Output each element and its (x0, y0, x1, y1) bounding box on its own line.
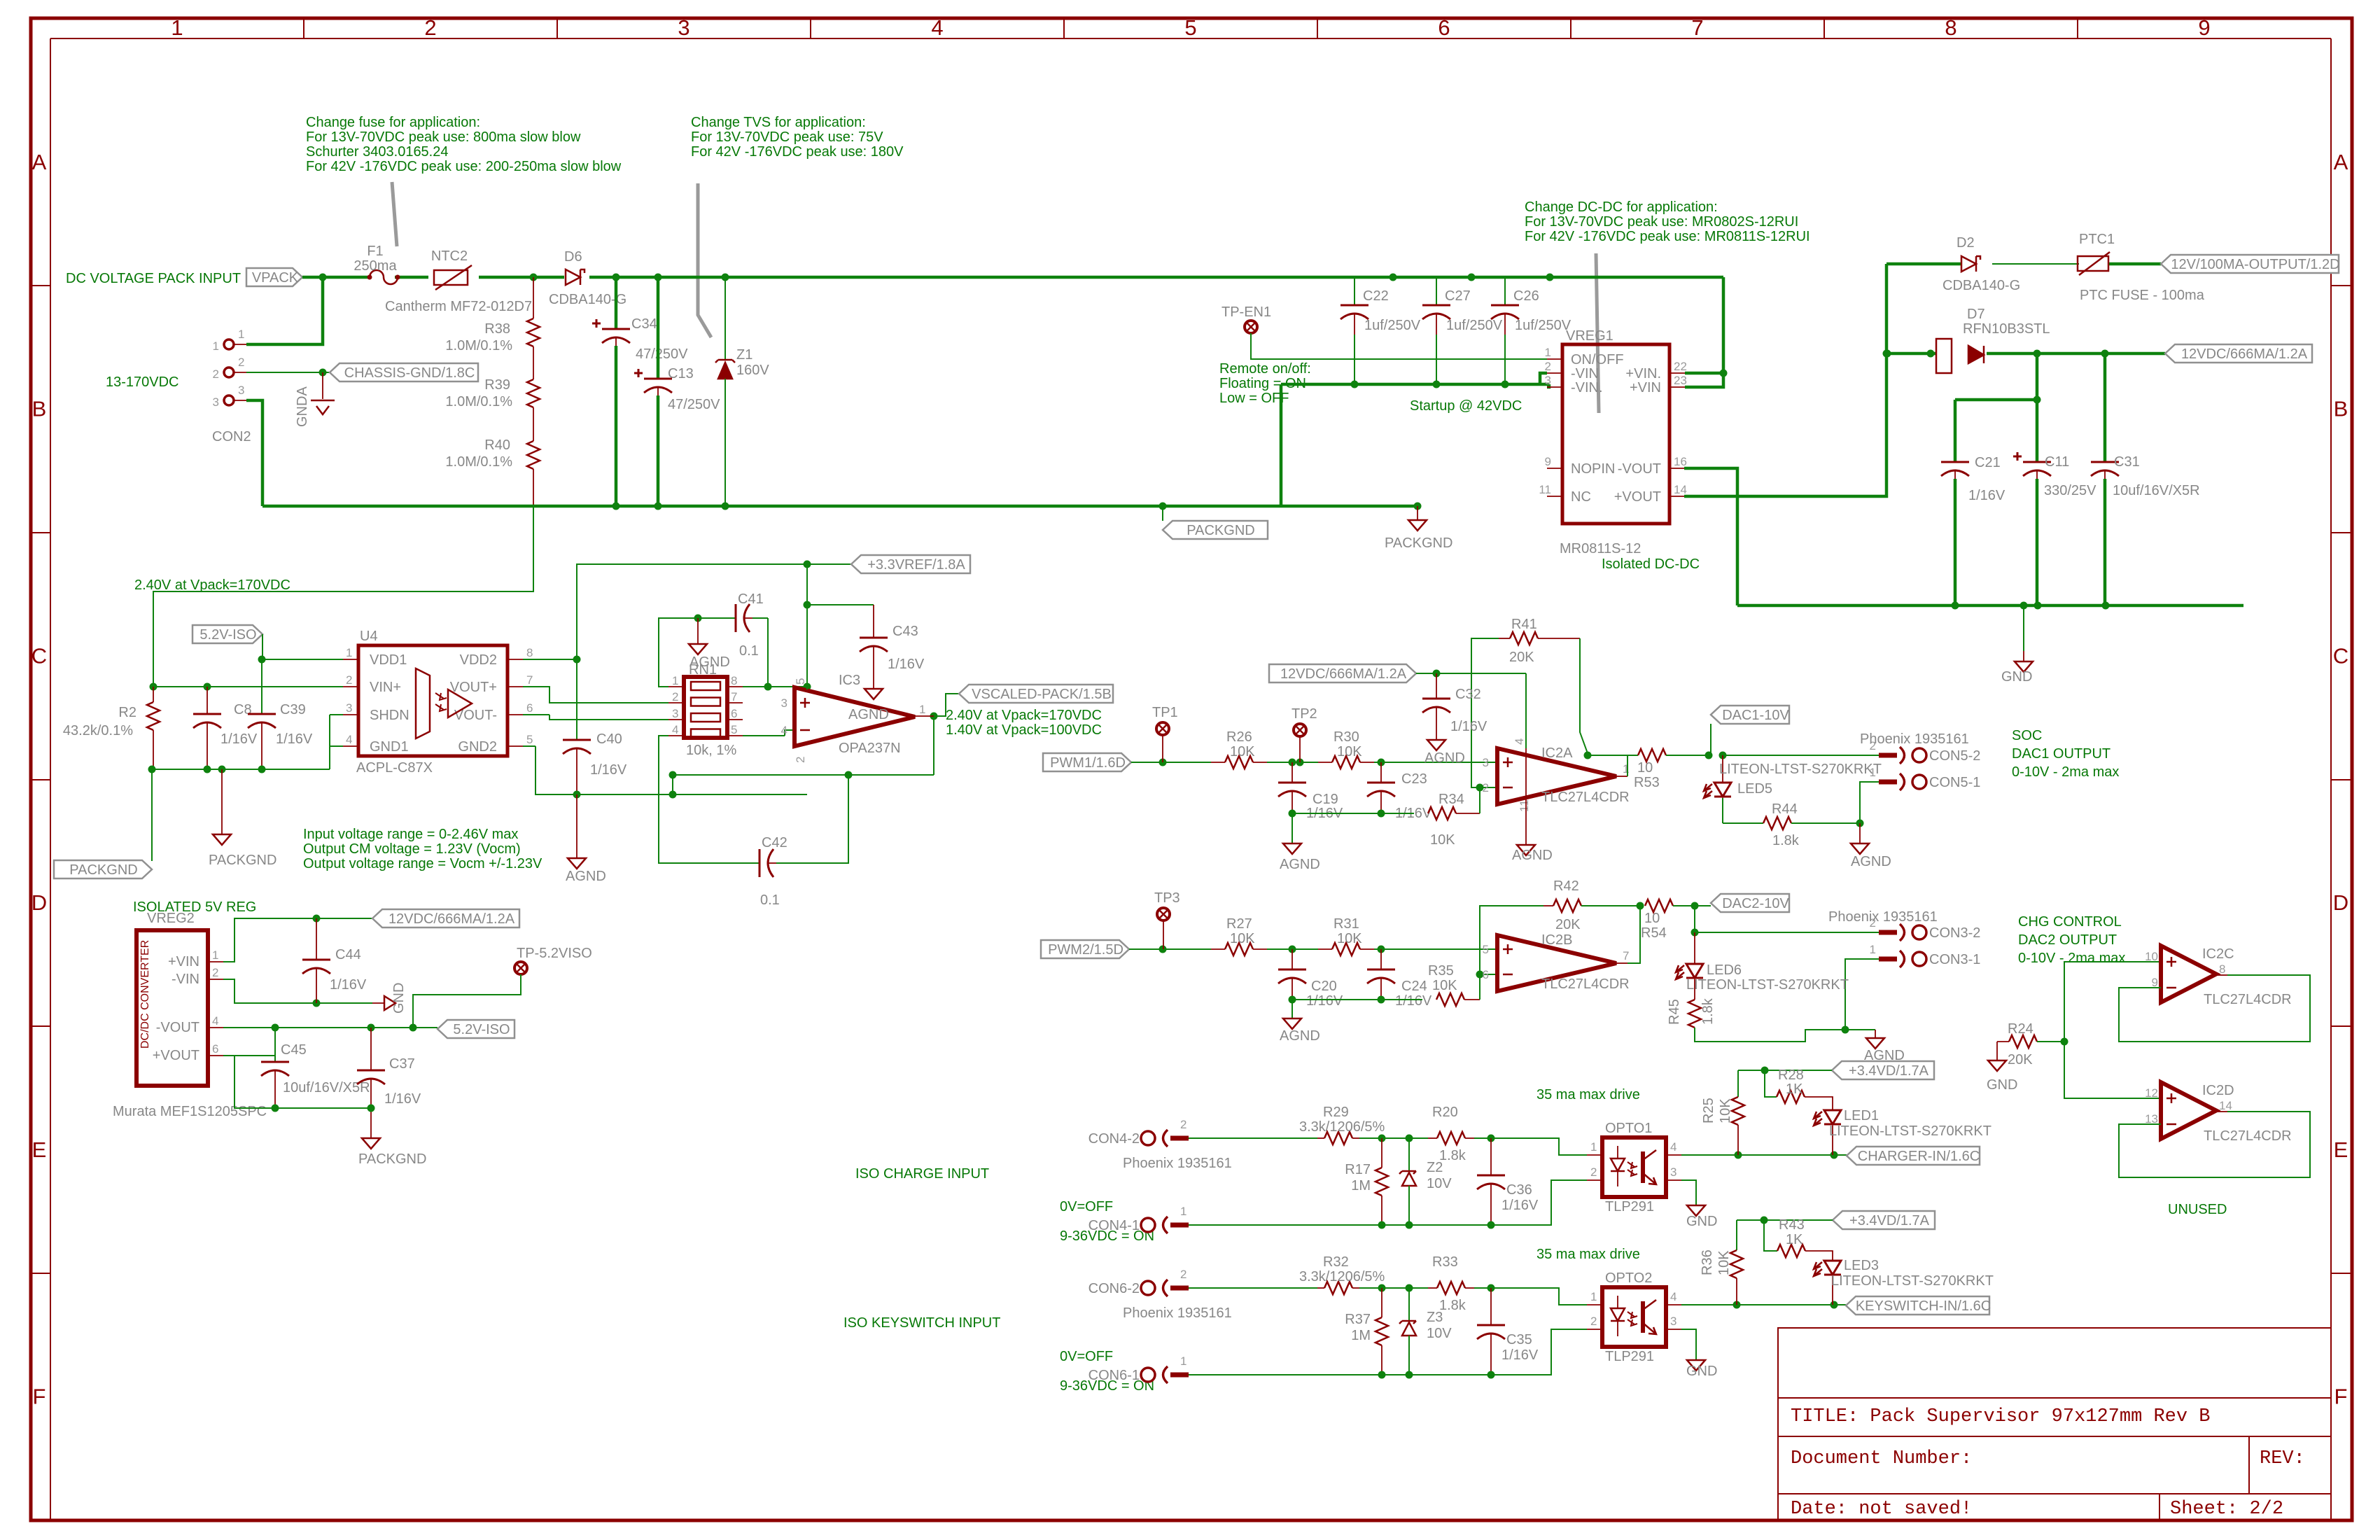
svg-text:0V=OFF: 0V=OFF (1060, 1199, 1113, 1214)
svg-text:LITEON-LTST-S270KRKT: LITEON-LTST-S270KRKT (1719, 762, 1882, 777)
svg-text:7: 7 (526, 673, 533, 687)
svg-text:1: 1 (212, 948, 218, 962)
svg-text:C41: C41 (738, 591, 764, 607)
svg-text:3: 3 (1545, 374, 1551, 387)
flag 5.2V-ISO at VREG2 (437, 1020, 514, 1038)
ground AGND below IC2A (1512, 748, 1553, 863)
DC-DC converter VREG2 (136, 930, 223, 1086)
resistor R39 (445, 346, 540, 409)
resistor R54 (1641, 899, 1699, 941)
wire C20/C24 gnd row (1289, 996, 1423, 1004)
wire 5.2V-ISO to VDD1 (258, 634, 344, 664)
fuse F1 (353, 244, 400, 284)
svg-text:C44: C44 (335, 947, 361, 962)
svg-text:7: 7 (1623, 949, 1629, 962)
svg-text:+VIN: +VIN (1630, 380, 1661, 395)
svg-text:TLP291: TLP291 (1605, 1349, 1654, 1364)
svg-text:RFN10B3STL: RFN10B3STL (1963, 321, 2050, 337)
connector CON2 pin 3 (213, 384, 246, 409)
svg-text:R38: R38 (484, 321, 510, 337)
svg-text:D7: D7 (1967, 307, 1985, 322)
wire isolated ground rail (1737, 602, 2243, 610)
capacitor C8 (193, 687, 258, 769)
svg-text:5: 5 (731, 723, 737, 736)
resistor R30 (1318, 729, 1374, 769)
svg-text:C20: C20 (1311, 979, 1337, 994)
svg-text:35 ma max drive: 35 ma max drive (1536, 1087, 1640, 1102)
svg-text:D: D (31, 890, 47, 915)
flag VPACK (246, 268, 302, 286)
svg-text:IC3: IC3 (839, 673, 860, 688)
flag KEYSWITCH-IN/1.6C (1846, 1296, 1989, 1315)
flag +3.4VD/1.7A keyswitch (1833, 1211, 1935, 1229)
svg-text:C19: C19 (1312, 792, 1338, 807)
svg-text:CHARGER-IN/1.6C: CHARGER-IN/1.6C (1858, 1149, 1980, 1164)
svg-text:1/16V: 1/16V (1501, 1198, 1539, 1213)
svg-text:ON/OFF: ON/OFF (1571, 352, 1624, 367)
svg-text:PWM2/1.5D: PWM2/1.5D (1048, 942, 1123, 958)
wire VREG2 +VOUT (223, 1028, 275, 1062)
resistor R34 (1428, 792, 1480, 848)
wire VIN+ row (150, 683, 344, 691)
svg-text:NTC2: NTC2 (431, 248, 468, 264)
svg-text:1: 1 (919, 703, 925, 716)
svg-text:For 42V -176VDC peak use: 200: For 42V -176VDC peak use: 200-250ma slow… (306, 159, 622, 174)
svg-text:1/16V: 1/16V (888, 657, 925, 672)
op-amp IC2B (1483, 935, 1630, 991)
leader line to fuse F1 (392, 182, 397, 246)
thermistor NTC2 (385, 248, 532, 314)
svg-text:R42: R42 (1553, 878, 1579, 894)
svg-text:1/16V: 1/16V (1968, 488, 2005, 503)
svg-text:Remote on/off:: Remote on/off: (1219, 361, 1311, 377)
svg-text:3.3k/1206/5%: 3.3k/1206/5% (1299, 1269, 1385, 1284)
svg-text:+VIN.: +VIN. (1625, 366, 1661, 381)
svg-text:2: 2 (1483, 781, 1489, 794)
svg-text:TP3: TP3 (1154, 890, 1180, 906)
note: charge on/off levels (1060, 1199, 1154, 1244)
svg-text:PACKGND: PACKGND (69, 862, 137, 878)
svg-text:NOPIN: NOPIN (1571, 461, 1615, 477)
flag CHASSIS-GND/1.8C (330, 363, 478, 381)
svg-text:Output CM voltage = 1.23V (Voc: Output CM voltage = 1.23V (Vocm) (303, 841, 521, 857)
svg-text:R30: R30 (1333, 729, 1359, 745)
svg-text:F: F (33, 1385, 46, 1409)
svg-text:+VOUT: +VOUT (153, 1048, 199, 1063)
svg-text:1: 1 (1590, 1140, 1597, 1154)
svg-text:PTC1: PTC1 (2079, 232, 2115, 247)
note: vscaled levels (946, 708, 1102, 738)
svg-text:LED3: LED3 (1844, 1258, 1879, 1273)
svg-text:R28: R28 (1778, 1067, 1804, 1083)
title block (1778, 1328, 2331, 1520)
svg-text:7: 7 (1691, 15, 1703, 40)
svg-text:Change fuse for application:: Change fuse for application: (306, 115, 480, 130)
svg-text:TP-5.2VISO: TP-5.2VISO (517, 946, 592, 961)
wire CON2 pin3 to PACKGND rail (246, 400, 262, 506)
svg-text:2.40V at Vpack=170VDC: 2.40V at Vpack=170VDC (134, 577, 290, 593)
svg-text:1K: 1K (1786, 1081, 1803, 1097)
svg-text:C26: C26 (1513, 288, 1539, 304)
svg-text:14: 14 (1674, 483, 1687, 496)
svg-text:1: 1 (672, 674, 678, 687)
ground PACKGND below C8 (209, 769, 276, 868)
svg-text:1uf/250V: 1uf/250V (1515, 318, 1571, 333)
svg-text:R32: R32 (1323, 1254, 1349, 1270)
ground PACKGND below C37 (358, 1138, 426, 1167)
svg-text:R53: R53 (1634, 775, 1660, 790)
connector CON3-2 (1870, 916, 1981, 941)
svg-text:CON2: CON2 (212, 429, 251, 444)
svg-text:Phoenix 1935161: Phoenix 1935161 (1860, 731, 1969, 747)
svg-text:5.2V-ISO: 5.2V-ISO (199, 627, 256, 643)
svg-text:+3.3VREF/1.8A: +3.3VREF/1.8A (867, 557, 965, 573)
svg-text:2: 2 (1590, 1315, 1597, 1328)
svg-text:4: 4 (1670, 1290, 1676, 1303)
svg-text:11: 11 (1539, 483, 1551, 496)
svg-text:GNDA: GNDA (295, 386, 310, 427)
svg-text:Murata MEF1S1205SPC: Murata MEF1S1205SPC (113, 1104, 267, 1119)
svg-text:AGND: AGND (848, 707, 889, 722)
svg-text:Change TVS for application:: Change TVS for application: (691, 115, 866, 130)
resistor R43 (1764, 1217, 1805, 1257)
wire DAC2 node (1691, 906, 1711, 937)
svg-text:C43: C43 (892, 624, 918, 639)
svg-text:1/16V: 1/16V (1306, 993, 1343, 1009)
svg-text:Isolated DC-DC: Isolated DC-DC (1602, 556, 1700, 572)
resistor R24 (1997, 1021, 2068, 1067)
svg-text:5.2V-ISO: 5.2V-ISO (453, 1022, 510, 1037)
svg-text:VOUT+: VOUT+ (450, 680, 497, 695)
svg-text:GND: GND (1686, 1364, 1717, 1379)
svg-text:2: 2 (1590, 1165, 1597, 1179)
wire D7 anode (1884, 350, 1937, 358)
svg-text:R37: R37 (1345, 1312, 1371, 1327)
capacitor C22 (1340, 277, 1421, 384)
svg-text:OPTO1: OPTO1 (1605, 1121, 1652, 1136)
resistor R26 (1211, 729, 1267, 769)
capacitor C39 (248, 659, 313, 769)
svg-text:47/250V: 47/250V (636, 346, 688, 362)
connector CON4-2 (1088, 1118, 1189, 1147)
svg-text:10K: 10K (1230, 931, 1255, 946)
svg-text:LITEON-LTST-S270KRKT: LITEON-LTST-S270KRKT (1829, 1123, 1991, 1139)
test point TP-5.2VISO (514, 946, 592, 974)
note: change TVS for application (691, 115, 904, 160)
wire RN1 pin4 to C42 (659, 736, 759, 863)
test point TP-EN1 (1221, 304, 1271, 333)
connector CON3-1 (1870, 943, 1981, 967)
diode D6 (549, 249, 626, 307)
svg-text:C39: C39 (280, 702, 306, 717)
wire PACKGND rail (262, 503, 1422, 510)
svg-text:R54: R54 (1641, 925, 1667, 941)
svg-text:Schurter 3403.0165.24: Schurter 3403.0165.24 (306, 144, 449, 160)
svg-text:IC2A: IC2A (1541, 745, 1573, 761)
flag 12VDC/666MA/1.2A at VREG2 (372, 909, 519, 927)
svg-text:C8: C8 (234, 702, 252, 717)
svg-text:Cantherm MF72-012D7: Cantherm MF72-012D7 (385, 299, 532, 314)
svg-text:0.1: 0.1 (760, 892, 780, 908)
op-amp IC2C (2145, 946, 2225, 1002)
svg-text:IC2C: IC2C (2202, 946, 2234, 962)
capacitor C23 (1367, 762, 1432, 821)
svg-text:SHDN: SHDN (370, 708, 409, 723)
svg-text:D6: D6 (564, 249, 582, 265)
wire PWM2 row (1129, 946, 1497, 953)
wire 12VDC/666MA net (1955, 350, 2165, 463)
svg-text:1: 1 (1623, 762, 1629, 776)
svg-text:-VOUT: -VOUT (1618, 461, 1661, 477)
svg-text:DAC1 OUTPUT: DAC1 OUTPUT (2012, 746, 2110, 762)
flag PWM1/1.6D (1043, 753, 1131, 771)
svg-text:2: 2 (794, 757, 807, 763)
svg-text:6: 6 (212, 1042, 218, 1056)
svg-text:C21: C21 (1975, 455, 2001, 470)
wire TP-EN1 to VREG1 ON/OFF (1251, 333, 1547, 359)
svg-text:1/16V: 1/16V (384, 1091, 421, 1107)
wire CON5-1 to agnd (1856, 782, 1879, 827)
svg-text:2: 2 (672, 690, 678, 703)
wire 12V output net (1886, 262, 2161, 266)
svg-text:LED6: LED6 (1707, 962, 1742, 978)
capacitor C34 (592, 277, 688, 506)
svg-text:R31: R31 (1333, 916, 1359, 932)
svg-text:R44: R44 (1772, 801, 1798, 817)
wire U4 gnd loop (148, 715, 344, 773)
svg-text:C: C (31, 643, 47, 668)
svg-text:10: 10 (2145, 950, 2158, 963)
op-amp IC3 (781, 678, 926, 763)
connector CON4-1 (1088, 1205, 1189, 1233)
flag PACKGND below rail (1163, 506, 1268, 539)
svg-text:1/16V: 1/16V (330, 977, 367, 993)
svg-text:R2: R2 (118, 705, 136, 720)
svg-text:IC2D: IC2D (2202, 1083, 2234, 1098)
svg-text:10V: 10V (1427, 1176, 1452, 1191)
capacitor C32 (1422, 673, 1487, 740)
svg-text:A: A (32, 150, 47, 174)
svg-text:AGND: AGND (1512, 848, 1553, 863)
svg-text:1.8k: 1.8k (1439, 1298, 1466, 1313)
capacitor C37 (357, 1028, 421, 1138)
svg-text:1: 1 (1590, 1290, 1597, 1303)
wire VREG1 -VOUT to gnd rail (1684, 468, 1737, 605)
svg-text:GND: GND (391, 983, 407, 1014)
wire OPTO1 pin4 row (1681, 1151, 1847, 1159)
svg-text:R27: R27 (1226, 916, 1252, 932)
flag +3.3VREF/1.8A (851, 555, 970, 573)
resistor R17 (1345, 1138, 1388, 1225)
wire divider tap (153, 506, 533, 687)
svg-text:TLC27L4CDR: TLC27L4CDR (2204, 992, 2292, 1007)
optocoupler OPTO1 (1587, 1137, 1681, 1197)
resistor R42 (1543, 878, 1644, 932)
svg-text:3: 3 (1670, 1315, 1676, 1328)
svg-text:2.40V at Vpack=170VDC: 2.40V at Vpack=170VDC (946, 708, 1102, 723)
svg-text:R24: R24 (2008, 1021, 2033, 1037)
svg-text:0-10V - 2ma max: 0-10V - 2ma max (2018, 951, 2125, 966)
wire IC2B output (1616, 906, 1640, 963)
svg-text:Low = OFF: Low = OFF (1219, 391, 1289, 406)
svg-text:6: 6 (1483, 968, 1489, 981)
svg-text:10K: 10K (1718, 1098, 1733, 1123)
svg-text:1uf/250V: 1uf/250V (1446, 318, 1503, 333)
wire R45 to agnd node (1695, 1028, 1845, 1042)
svg-text:1: 1 (1545, 346, 1551, 359)
svg-text:B: B (32, 397, 47, 421)
wire IC2D feedback loop (2119, 1112, 2310, 1177)
resistor R37 (1345, 1288, 1388, 1375)
wire C19/C23 gnd row (1289, 810, 1415, 818)
wire C41 to RN1 pin8 (743, 618, 811, 691)
resistor R20 (1428, 1105, 1474, 1163)
svg-text:-VOUT: -VOUT (156, 1020, 199, 1035)
svg-text:C27: C27 (1445, 288, 1471, 304)
svg-text:TLC27L4CDR: TLC27L4CDR (1541, 976, 1630, 992)
capacitor C35 (1477, 1288, 1539, 1375)
svg-text:4: 4 (212, 1014, 218, 1028)
capacitor C42 (759, 835, 791, 908)
wire OPTO2 pin4 row (1681, 1301, 1846, 1309)
wire R42 feedback (1480, 906, 1543, 974)
svg-text:VREG2: VREG2 (147, 911, 195, 926)
svg-text:1/16V: 1/16V (220, 731, 258, 747)
svg-text:1M: 1M (1351, 1328, 1371, 1343)
svg-text:TLC27L4CDR: TLC27L4CDR (1541, 790, 1630, 805)
connector CON6-2 (1088, 1268, 1189, 1296)
svg-text:TLP291: TLP291 (1605, 1199, 1654, 1214)
svg-text:1: 1 (213, 339, 219, 353)
svg-text:VSCALED-PACK/1.5B: VSCALED-PACK/1.5B (972, 687, 1112, 702)
svg-text:Phoenix 1935161: Phoenix 1935161 (1123, 1156, 1232, 1171)
capacitor C41 (736, 591, 768, 659)
svg-text:11: 11 (1518, 799, 1531, 812)
ground PACKGND symbol (1385, 506, 1452, 551)
ground GND at OPTO2 (1681, 1329, 1717, 1379)
svg-text:1K: 1K (1786, 1232, 1803, 1247)
led LED1 (1805, 1097, 1991, 1155)
svg-text:CON5-1: CON5-1 (1929, 775, 1980, 790)
capacitor C44 (302, 918, 367, 1003)
resistor R27 (1211, 916, 1267, 955)
svg-text:For 13V-70VDC peak use: 75V: For 13V-70VDC peak use: 75V (691, 129, 883, 145)
svg-text:8: 8 (1945, 15, 1956, 40)
ground AGND below C20 (1280, 1000, 1320, 1044)
svg-text:12: 12 (2145, 1086, 2158, 1100)
capacitor C20 (1278, 949, 1343, 1009)
svg-text:VREG1: VREG1 (1566, 328, 1613, 344)
svg-text:10k, 1%: 10k, 1% (686, 743, 736, 758)
svg-text:Z3: Z3 (1427, 1310, 1443, 1325)
capacitor C11 (2013, 452, 2096, 605)
flag 12VDC/666MA/1.2A at IC2A (1269, 664, 1416, 682)
svg-text:C45: C45 (281, 1042, 307, 1058)
ground AGND below C32 (1424, 740, 1465, 766)
svg-text:6: 6 (731, 707, 737, 720)
resistor R35 (1428, 963, 1480, 1006)
svg-text:UNUSED: UNUSED (2168, 1202, 2227, 1217)
wire VDD2 to +3.3VREF (523, 561, 851, 664)
ground AGND below C19 (1280, 813, 1320, 872)
svg-text:1: 1 (346, 646, 352, 659)
svg-text:MR0811S-12: MR0811S-12 (1560, 541, 1641, 556)
svg-text:10uf/16V/X5R: 10uf/16V/X5R (2113, 483, 2200, 498)
svg-text:For 42V -176VDC peak use: 180: For 42V -176VDC peak use: 180V (691, 144, 904, 160)
svg-text:6: 6 (1438, 15, 1450, 40)
ground AGND at R45 (1845, 1030, 1905, 1063)
wire R35 to IC2B -in (1476, 971, 1498, 1000)
svg-text:1/16V: 1/16V (1395, 993, 1432, 1009)
resistor R29 (1299, 1105, 1385, 1144)
capacitor C45 (261, 1042, 370, 1108)
diode D2 (1942, 235, 2020, 293)
wire VREG2 +VIN to 12VDC flag (223, 915, 372, 962)
svg-text:CON5-2: CON5-2 (1929, 748, 1980, 764)
svg-text:TITLE: Pack Supervisor 97x127: TITLE: Pack Supervisor 97x127mm Rev B (1791, 1406, 2211, 1427)
svg-text:R25: R25 (1701, 1098, 1716, 1123)
zener diode Z2 (1399, 1138, 1452, 1225)
svg-text:C32: C32 (1455, 687, 1481, 702)
resistor R38 (445, 277, 540, 353)
note: U4 io ranges (303, 827, 542, 871)
capacitor C21 (1941, 455, 2005, 605)
svg-text:10: 10 (1644, 911, 1660, 926)
svg-text:35 ma max drive: 35 ma max drive (1536, 1247, 1640, 1262)
resistor R33 (1428, 1254, 1474, 1313)
svg-text:E: E (2334, 1137, 2348, 1162)
svg-text:1.8k: 1.8k (1772, 833, 1800, 848)
svg-text:10K: 10K (1230, 744, 1255, 759)
svg-text:10K: 10K (1716, 1250, 1732, 1275)
svg-text:3: 3 (213, 395, 219, 409)
svg-text:4: 4 (346, 733, 352, 746)
svg-text:0V=OFF: 0V=OFF (1060, 1349, 1113, 1364)
wire IC2C feedback loop (2119, 975, 2310, 1042)
zener diode Z1 (715, 277, 769, 506)
capacitor C43 (807, 605, 925, 672)
resistor R32 (1299, 1254, 1385, 1294)
wire VOUT- to RN1 pin3 (523, 715, 668, 720)
svg-text:LED1: LED1 (1844, 1108, 1879, 1123)
svg-text:10: 10 (1637, 760, 1653, 776)
svg-text:2: 2 (1180, 1118, 1186, 1131)
wire 5.2V-ISO row (223, 1024, 437, 1032)
ground GND at OPTO1 (1681, 1180, 1717, 1229)
svg-text:2: 2 (212, 966, 218, 979)
svg-text:Change DC-DC for application:: Change DC-DC for application: (1525, 199, 1718, 215)
svg-text:TP-EN1: TP-EN1 (1221, 304, 1271, 320)
svg-text:IC2B: IC2B (1541, 932, 1572, 948)
capacitor C13 (634, 277, 720, 506)
svg-text:4: 4 (931, 15, 943, 40)
svg-text:R26: R26 (1226, 729, 1252, 745)
svg-text:R17: R17 (1345, 1162, 1371, 1177)
svg-text:8: 8 (2219, 962, 2225, 976)
svg-text:CON3-2: CON3-2 (1929, 925, 1980, 941)
wire IC3 V+ from ref (804, 564, 811, 689)
svg-text:-VIN.: -VIN. (1571, 380, 1603, 395)
ground GND below rail (2001, 605, 2033, 685)
svg-text:1: 1 (171, 15, 183, 40)
svg-text:R45: R45 (1667, 999, 1682, 1025)
connector CON5-2 (1870, 739, 1981, 764)
svg-text:GND: GND (2001, 669, 2032, 685)
svg-text:VIN+: VIN+ (370, 680, 401, 695)
svg-text:LITEON-LTST-S270KRKT: LITEON-LTST-S270KRKT (1686, 977, 1849, 993)
svg-text:DC VOLTAGE PACK INPUT: DC VOLTAGE PACK INPUT (66, 271, 241, 286)
svg-text:+VOUT: +VOUT (1614, 489, 1661, 505)
